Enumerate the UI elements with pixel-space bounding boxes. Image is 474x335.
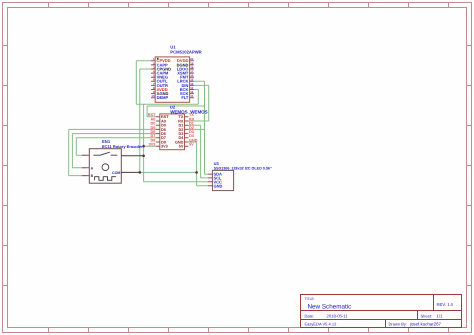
U3 pin stubs [208, 174, 213, 186]
U1 right pin names [177, 58, 189, 100]
wire net CPVDD-BCK [136, 61, 198, 105]
svg-text:3V3: 3V3 [161, 145, 168, 149]
U1 left pin names [157, 58, 172, 100]
svg-text:2018-05-11: 2018-05-11 [327, 313, 349, 318]
svg-text:3V3: 3V3 [149, 143, 156, 147]
module U2 WEMOS body [160, 114, 185, 150]
wire net D6-encoder A [72, 134, 155, 168]
wire net D1-SCL [188, 125, 208, 178]
wire net GND: U1 CPGND / encoder COM / U2 GND / U3 GND [140, 69, 208, 186]
U1 left pin stubs [151, 61, 155, 98]
svg-text:A: A [91, 166, 94, 170]
svg-text:10: 10 [151, 94, 155, 98]
svg-text:COM: COM [112, 171, 120, 175]
svg-text:SSD1306_128x32 I2C OLED 0.96": SSD1306_128x32 I2C OLED 0.96" [214, 167, 272, 171]
U1 right pin stubs [190, 61, 194, 98]
wire net 3V3: U2 3V3 / encoder switch / U3 VCC [144, 104, 208, 181]
svg-text:EasyEDA V5.4.12: EasyEDA V5.4.12 [305, 322, 338, 327]
svg-text:5V: 5V [189, 143, 194, 147]
svg-text:josef.kuchar267: josef.kuchar267 [409, 322, 442, 327]
wire net LRCK-RST-D2-SDA [147, 81, 208, 174]
U1 right pin numbers [190, 57, 194, 98]
svg-text:Sheet:: Sheet: [421, 313, 433, 318]
U2 right pin names [175, 115, 184, 148]
rotary encoder EN1 body [89, 149, 121, 184]
U2 left pin stubs [156, 117, 160, 146]
U1 left pin numbers [151, 57, 155, 98]
svg-text:U3: U3 [214, 161, 220, 166]
U2 right pin numbers [189, 113, 198, 146]
U3 pin names [214, 172, 223, 189]
EN1 quadrature waveform [95, 177, 117, 181]
svg-text:Drawn By:: Drawn By: [389, 322, 407, 327]
junction COM-CPGND [139, 171, 142, 174]
EN1 shaft circle [102, 164, 109, 171]
IC U1 PCM5102APWR body [155, 57, 189, 102]
svg-text:DEMP: DEMP [157, 95, 169, 100]
wire net D5-encoder B [69, 129, 156, 175]
svg-text:New Schematic: New Schematic [308, 304, 352, 311]
svg-text:FLT: FLT [181, 95, 189, 100]
wire net DIN-RX [188, 85, 208, 121]
title block [301, 295, 462, 328]
svg-text:TITLE:: TITLE: [305, 297, 315, 301]
junction COM-U3GND [195, 171, 198, 174]
junction 3V3 [142, 145, 145, 148]
svg-text:PCM5102APWR: PCM5102APWR [170, 49, 201, 54]
U2 right pin stubs [185, 117, 189, 146]
svg-text:GND: GND [214, 183, 223, 188]
EN1 pin stubs [82, 155, 144, 175]
svg-text:B: B [91, 174, 94, 178]
junction switch-3V3 [142, 155, 145, 158]
EN1 switch symbol [93, 152, 117, 155]
svg-text:REV: 1.0: REV: 1.0 [437, 302, 454, 307]
display U3 SSD1306 body [212, 170, 233, 190]
svg-text:5V: 5V [179, 145, 184, 149]
wire net D7-encoder switch [76, 138, 156, 155]
U2 left pin numbers [148, 113, 156, 146]
U2 left pin names [161, 115, 169, 148]
svg-text:11: 11 [190, 94, 193, 98]
svg-text:EC11 Rotary Encoder: EC11 Rotary Encoder [102, 144, 143, 149]
svg-text:1/1: 1/1 [437, 313, 443, 318]
svg-text:Date:: Date: [305, 313, 315, 318]
